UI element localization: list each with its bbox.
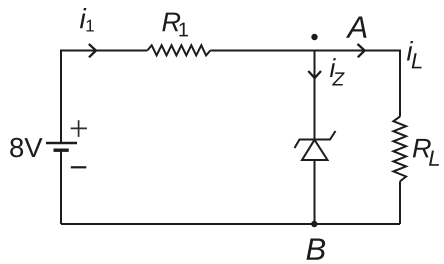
label iZ (i) — [330, 58, 336, 77]
battery V1 short plate (-) — [54, 148, 69, 151]
minus sign — [71, 166, 87, 168]
label RL (L) — [429, 151, 439, 166]
wire left lower segment — [60, 152, 62, 225]
plus sign — [71, 120, 87, 137]
label i1 (1) — [86, 20, 93, 32]
node A dot — [311, 34, 317, 40]
wire middle lower (zener to node B) — [314, 160, 316, 224]
label 8V — [10, 138, 42, 157]
arrow iZ — [308, 71, 321, 78]
battery V1 long plate (+) — [46, 142, 77, 144]
label i1 (i) — [80, 8, 86, 28]
zener diode D1 triangle — [302, 140, 328, 160]
label B — [306, 238, 325, 259]
label iL (L) — [412, 53, 422, 68]
label A — [346, 16, 367, 37]
wire top right segment — [210, 51, 400, 117]
label RL (R) — [413, 139, 431, 158]
wire middle upper (node A to zener) — [314, 51, 316, 140]
label iZ (Z) — [332, 72, 345, 85]
arrow i1 — [89, 44, 96, 57]
label R1 (R) — [162, 13, 180, 32]
wire top left segment — [61, 51, 147, 143]
resistor RL — [393, 117, 406, 182]
zener diode D1 cathode bar — [295, 131, 336, 148]
wire bottom — [61, 223, 400, 225]
label iL (i) — [407, 41, 413, 61]
resistor R1 — [147, 45, 210, 55]
arrow iL — [358, 44, 365, 57]
label R1 (1) — [179, 23, 188, 37]
wire right lower segment — [399, 181, 401, 224]
node B dot — [311, 221, 317, 227]
